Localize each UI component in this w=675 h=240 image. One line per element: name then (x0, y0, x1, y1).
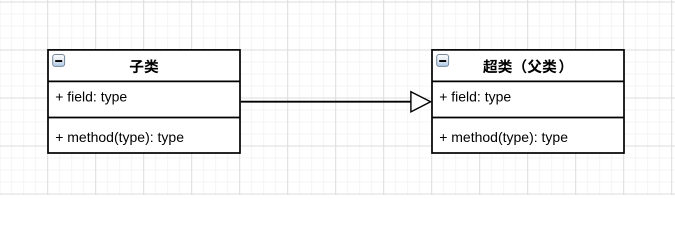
superclass 超类（父类） header divider (432, 80, 624, 82)
svg-text:+ method(type): type: + method(type): type (439, 129, 568, 145)
svg-text:+ field: type: + field: type (439, 89, 511, 105)
class box subclass 子类: outer rectangle (48, 50, 240, 153)
subclass 子类 field/method separator line (48, 117, 240, 119)
subclass 子类 header divider (48, 80, 240, 82)
superclass 超类（父类） field/method separator line (432, 117, 624, 119)
inheritance edge: wire from subclass to superclass (241, 101, 411, 103)
svg-text:+ method(type): type: + method(type): type (55, 129, 184, 145)
subclass 子类 collapse (minus) icon (53, 55, 65, 67)
subclass 子类 title (130, 59, 159, 73)
superclass 超类（父类） collapse (minus) icon (437, 55, 449, 67)
svg-text:+ field: type: + field: type (55, 89, 127, 105)
class box superclass 超类（父类）: outer rectangle (432, 50, 624, 153)
superclass 超类（父类） title (483, 59, 563, 73)
inheritance edge: hollow triangle arrowhead (411, 92, 431, 112)
